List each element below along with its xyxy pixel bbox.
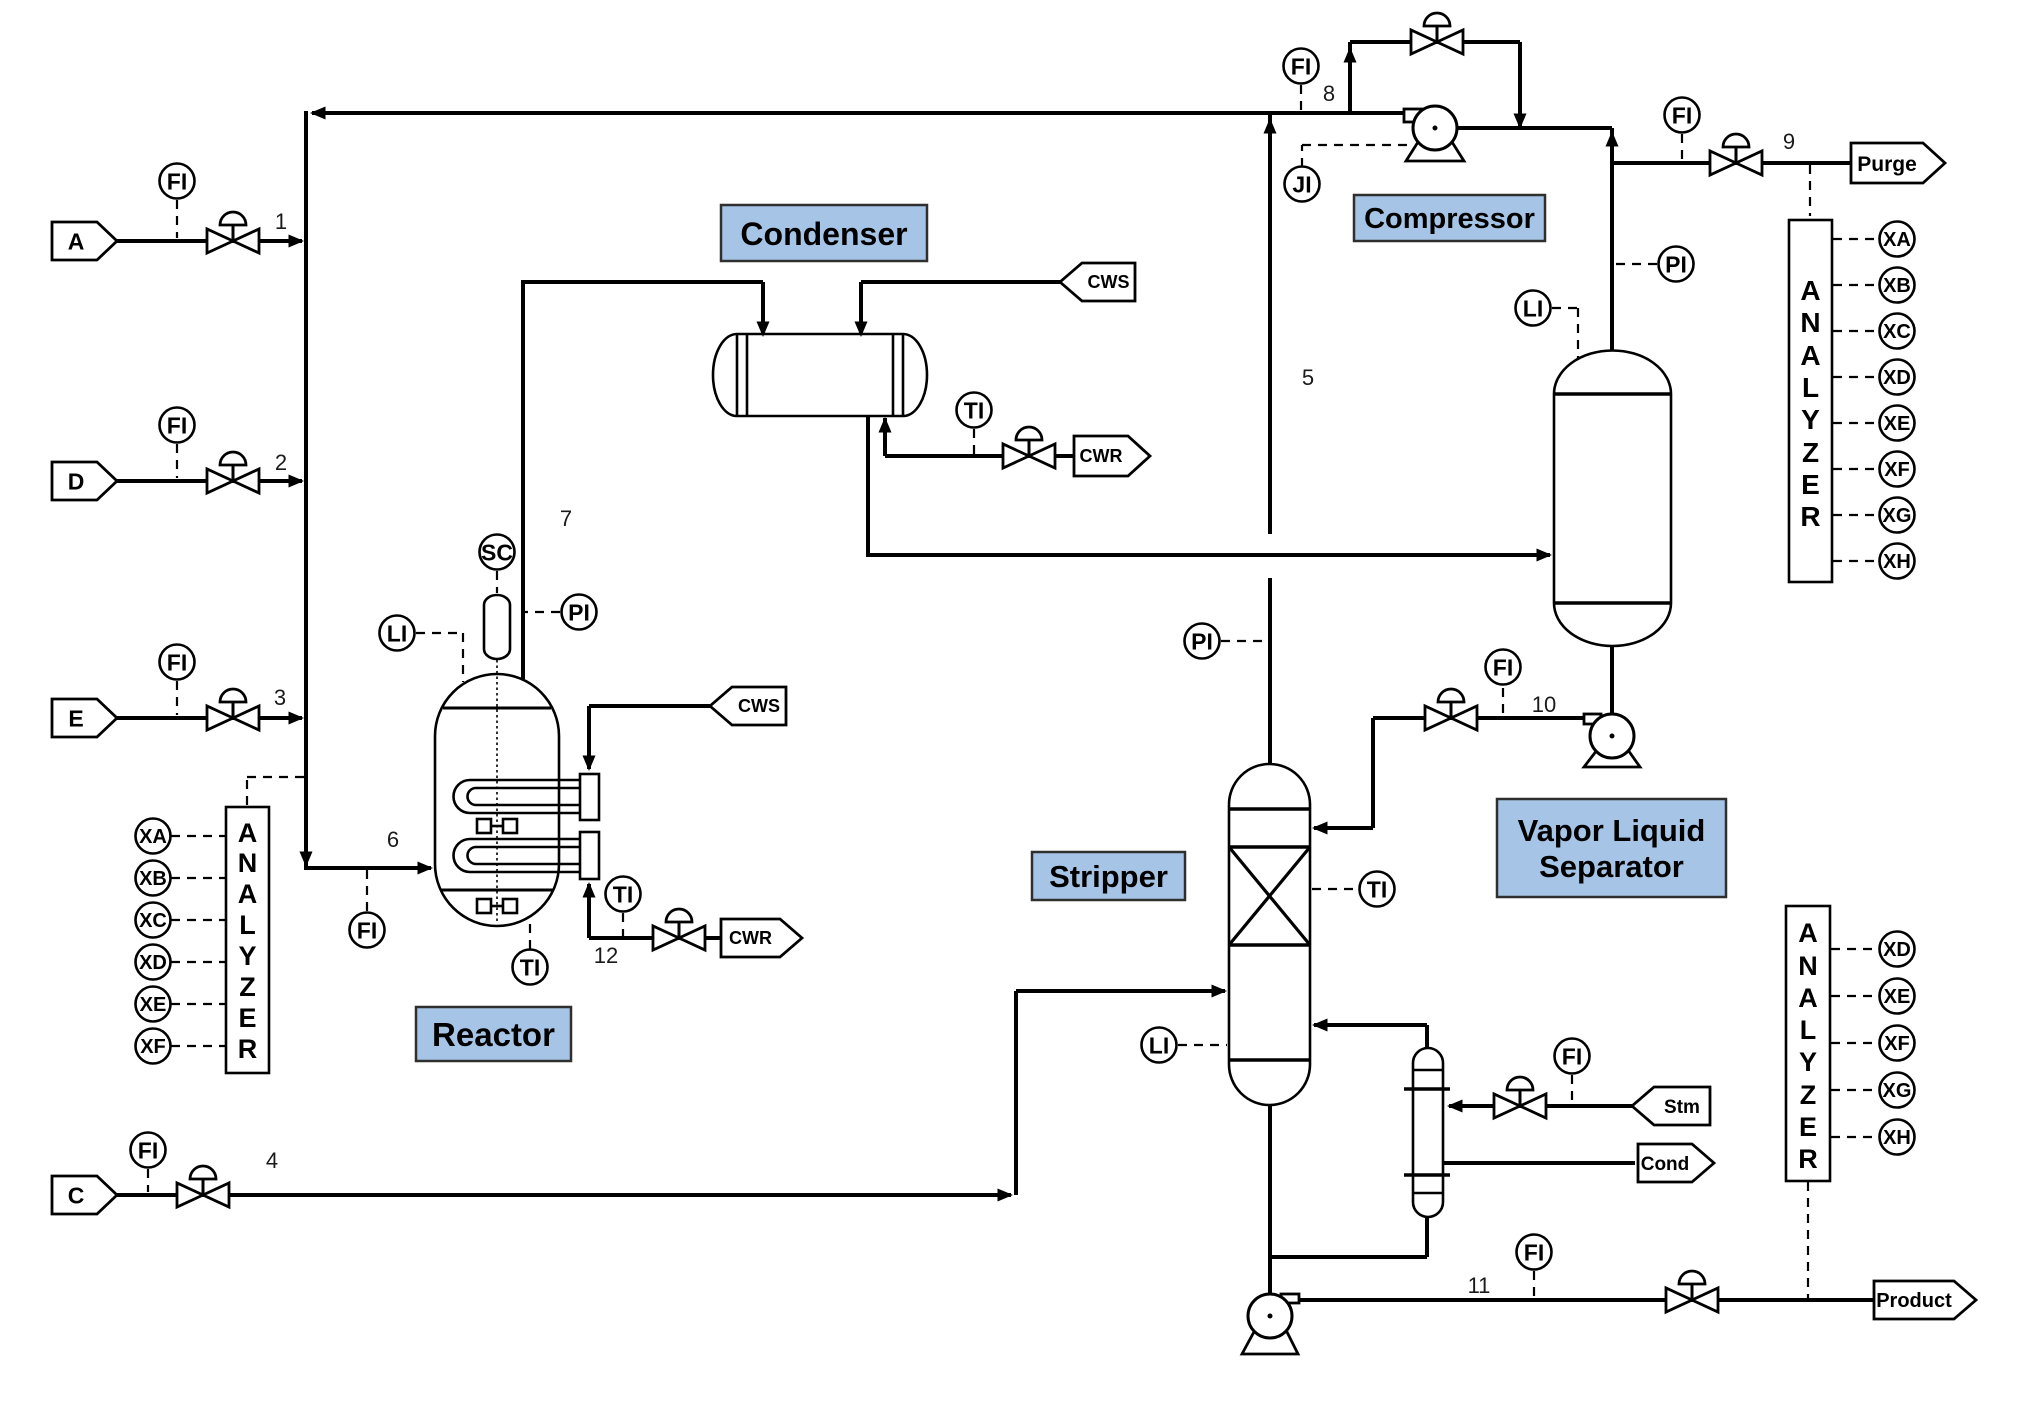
svg-text:1: 1 [275, 209, 287, 234]
svg-text:XB: XB [1883, 275, 1911, 297]
svg-text:FI: FI [1524, 1239, 1544, 1265]
svg-text:FI: FI [167, 649, 187, 675]
svg-text:E: E [1799, 1112, 1817, 1142]
svg-text:XA: XA [139, 826, 167, 848]
svg-text:FI: FI [138, 1137, 158, 1163]
svg-text:N: N [238, 848, 258, 878]
svg-text:A: A [1800, 340, 1820, 371]
svg-text:FI: FI [167, 412, 187, 438]
svg-text:E: E [238, 1003, 256, 1033]
svg-text:10: 10 [1532, 692, 1556, 717]
svg-text:LI: LI [1149, 1032, 1169, 1058]
svg-text:TI: TI [520, 954, 540, 980]
svg-text:XG: XG [1883, 505, 1912, 527]
svg-text:XE: XE [140, 994, 167, 1016]
svg-text:XC: XC [1883, 321, 1911, 343]
svg-text:FI: FI [1562, 1043, 1582, 1069]
svg-text:Z: Z [239, 972, 256, 1002]
svg-text:XD: XD [1883, 367, 1911, 389]
svg-text:CWR: CWR [1080, 446, 1123, 466]
svg-text:FI: FI [1493, 654, 1513, 680]
svg-text:E: E [1801, 469, 1820, 500]
svg-text:XC: XC [139, 910, 167, 932]
svg-text:Vapor Liquid: Vapor Liquid [1518, 813, 1706, 848]
svg-text:XD: XD [139, 952, 167, 974]
svg-text:N: N [1798, 951, 1818, 981]
svg-text:6: 6 [387, 827, 399, 852]
svg-text:Stripper: Stripper [1049, 859, 1168, 894]
svg-text:CWR: CWR [729, 928, 772, 948]
svg-text:Cond: Cond [1641, 1154, 1690, 1175]
svg-text:XA: XA [1883, 229, 1911, 251]
svg-text:R: R [1798, 1144, 1818, 1174]
svg-text:XH: XH [1883, 1127, 1911, 1149]
svg-text:Compressor: Compressor [1364, 203, 1535, 235]
svg-text:Reactor: Reactor [432, 1016, 555, 1053]
svg-text:N: N [1800, 307, 1820, 338]
svg-text:C: C [68, 1183, 85, 1209]
svg-text:XE: XE [1884, 413, 1911, 435]
svg-text:A: A [238, 818, 258, 848]
svg-text:4: 4 [266, 1148, 278, 1173]
svg-text:A: A [1798, 983, 1818, 1013]
svg-text:Separator: Separator [1539, 849, 1684, 884]
svg-text:XF: XF [1884, 459, 1910, 481]
svg-text:A: A [1800, 275, 1820, 306]
svg-text:CWS: CWS [738, 696, 780, 716]
svg-text:Condenser: Condenser [740, 216, 907, 252]
svg-text:TI: TI [1367, 876, 1387, 902]
svg-text:A: A [1798, 918, 1818, 948]
svg-text:3: 3 [274, 685, 286, 710]
svg-text:LI: LI [387, 620, 407, 646]
svg-text:XE: XE [1884, 986, 1911, 1008]
svg-text:Y: Y [1799, 1047, 1817, 1077]
svg-text:FI: FI [357, 917, 377, 943]
svg-text:R: R [1800, 501, 1820, 532]
svg-text:L: L [239, 910, 256, 940]
svg-text:9: 9 [1783, 129, 1795, 154]
svg-text:12: 12 [594, 943, 618, 968]
svg-text:XF: XF [1884, 1033, 1910, 1055]
svg-text:FI: FI [167, 168, 187, 194]
svg-text:D: D [68, 469, 85, 495]
svg-text:Z: Z [1802, 437, 1819, 468]
svg-text:2: 2 [275, 450, 287, 475]
svg-text:L: L [1802, 372, 1819, 403]
svg-text:PI: PI [1191, 628, 1213, 654]
svg-text:Stm: Stm [1664, 1097, 1700, 1118]
svg-text:FI: FI [1672, 102, 1692, 128]
svg-text:SC: SC [481, 539, 513, 565]
svg-text:XF: XF [140, 1036, 166, 1058]
svg-text:XG: XG [1883, 1080, 1912, 1102]
svg-text:TI: TI [613, 881, 633, 907]
svg-text:7: 7 [560, 506, 572, 531]
svg-text:Z: Z [1800, 1080, 1817, 1110]
svg-text:JI: JI [1292, 171, 1311, 197]
svg-text:CWS: CWS [1088, 272, 1130, 292]
svg-text:PI: PI [1665, 251, 1687, 277]
svg-text:A: A [238, 879, 258, 909]
svg-text:XD: XD [1883, 939, 1911, 961]
svg-text:PI: PI [568, 599, 590, 625]
svg-text:11: 11 [1468, 1273, 1491, 1298]
svg-text:XH: XH [1883, 551, 1911, 573]
svg-text:LI: LI [1523, 295, 1543, 321]
svg-text:TI: TI [964, 397, 984, 423]
svg-text:8: 8 [1323, 81, 1335, 106]
svg-text:E: E [68, 706, 83, 732]
svg-text:Y: Y [1801, 404, 1820, 435]
svg-text:FI: FI [1291, 53, 1311, 79]
svg-text:5: 5 [1302, 365, 1314, 390]
svg-text:A: A [68, 229, 85, 255]
svg-text:Y: Y [238, 941, 256, 971]
svg-text:L: L [1800, 1015, 1817, 1045]
svg-text:Product: Product [1876, 1290, 1952, 1312]
svg-text:Purge: Purge [1857, 153, 1917, 176]
svg-text:R: R [238, 1034, 258, 1064]
svg-text:XB: XB [139, 868, 167, 890]
